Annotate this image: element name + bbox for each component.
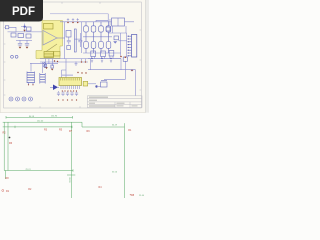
svg-text:35.56: 35.56	[112, 172, 118, 174]
svg-text:PDF: PDF	[12, 6, 35, 18]
svg-text:50.80: 50.80	[69, 177, 71, 183]
svg-text:154.94: 154.94	[51, 116, 58, 118]
svg-text:152.40: 152.40	[37, 120, 44, 122]
svg-text:84.58: 84.58	[29, 116, 35, 118]
svg-text:25.40: 25.40	[139, 195, 145, 197]
svg-text:34.29: 34.29	[112, 125, 118, 127]
svg-text:78.74: 78.74	[25, 169, 31, 171]
